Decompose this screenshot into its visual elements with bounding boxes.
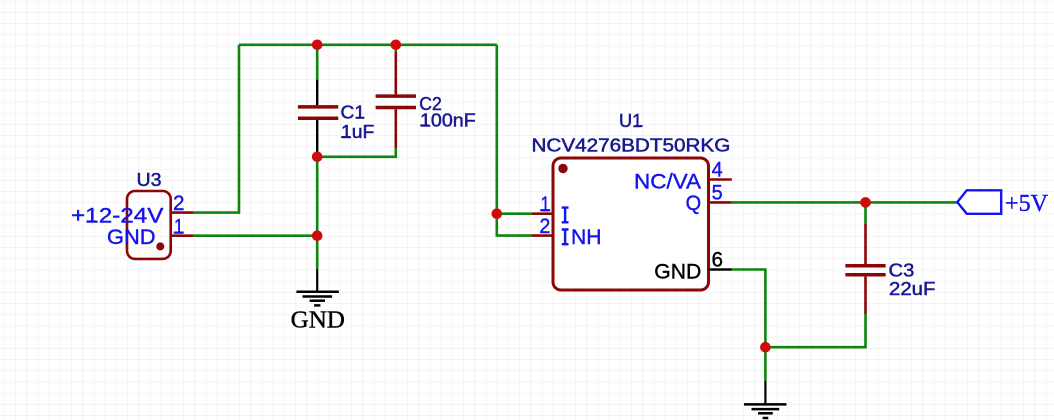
junction C3 top — [860, 197, 871, 208]
svg-text:100nF: 100nF — [420, 110, 476, 130]
svg-text:2: 2 — [173, 192, 185, 215]
ground GND left — [291, 269, 345, 333]
junction top C1 — [312, 40, 323, 51]
svg-text:4: 4 — [712, 159, 723, 182]
junction top C2 — [391, 40, 402, 51]
capacitor C2 — [376, 52, 476, 148]
svg-text:U3: U3 — [137, 170, 162, 190]
connector U3 — [71, 170, 194, 259]
wire top horizontal — [239, 43, 497, 46]
junction bottom right — [760, 342, 771, 353]
wire junction down to right ground — [764, 347, 767, 381]
wire C1 branch top stub — [316, 45, 319, 80]
svg-text:GND: GND — [654, 260, 701, 283]
wire U1 pin6 to bottom junction — [732, 270, 766, 348]
U1 pin 2 INH — [532, 234, 554, 237]
svg-text:+5V: +5V — [1005, 191, 1049, 217]
svg-text:22uF: 22uF — [889, 279, 935, 299]
U1 pin 4 NC/VA — [709, 178, 732, 181]
svg-text:+12-24V: +12-24V — [71, 204, 164, 227]
ground right — [744, 381, 787, 418]
junction C1 bottom — [312, 152, 323, 163]
U3 pin 2 — [171, 211, 194, 214]
junction U1 pin1 — [492, 208, 503, 219]
wire C2 top stub — [394, 45, 397, 52]
svg-text:5: 5 — [712, 182, 723, 205]
svg-text:Q: Q — [686, 192, 702, 215]
svg-text:C3: C3 — [889, 260, 915, 280]
capacitor C3 — [845, 224, 935, 314]
U1 pin 6 GND — [709, 268, 732, 271]
op-amp U1 regulator NCV4276BDT50RKG — [532, 111, 732, 290]
U3 pin 1 — [171, 234, 194, 237]
svg-text:C1: C1 — [341, 103, 366, 123]
junction GND net left — [312, 230, 323, 241]
wire bottom junction to C3 bottom — [765, 314, 865, 347]
svg-text:1uF: 1uF — [341, 122, 374, 142]
svg-text:GND: GND — [291, 307, 345, 333]
svg-text:NC/VA: NC/VA — [634, 170, 701, 193]
U1 pin 5 Q — [709, 201, 732, 204]
svg-text:NCV4276BDT50RKG: NCV4276BDT50RKG — [532, 135, 731, 155]
power flag +5V — [957, 190, 1048, 217]
svg-text:2: 2 — [539, 215, 550, 238]
wire Q output to +5V flag — [732, 201, 958, 204]
capacitor C1 — [298, 80, 375, 157]
wire C3 top stub — [864, 202, 867, 224]
svg-text:U1: U1 — [619, 111, 642, 131]
svg-text:GND: GND — [107, 226, 156, 249]
U3 pin1 marker dot — [156, 242, 164, 250]
svg-text:NH: NH — [571, 226, 602, 249]
wire U3 pin1 to C1 node — [194, 234, 317, 237]
wire junction down to U1 pin2 — [497, 214, 532, 236]
svg-text:1: 1 — [174, 216, 184, 239]
U1 pin 1 I — [532, 212, 553, 215]
svg-text:6: 6 — [712, 248, 724, 271]
wire U3 pin2 to top-left corner — [194, 45, 239, 213]
wire bottom loop C1 to C2 — [317, 148, 396, 157]
wire C1 bottom node down to ground — [316, 157, 319, 270]
svg-text:1: 1 — [541, 193, 551, 216]
U1 pin1 marker dot — [558, 164, 567, 173]
wire right vertical to U1 pin1 — [495, 45, 498, 214]
wire junction to U1 pin1 — [497, 212, 532, 215]
